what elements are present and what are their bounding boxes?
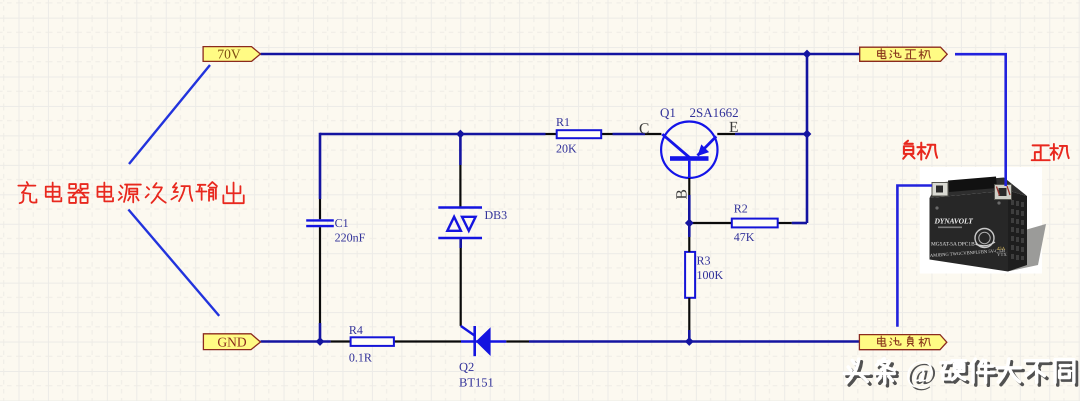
capacitor C1 <box>306 220 334 226</box>
wire bottom rail GND to C1 junction <box>261 340 331 343</box>
pin DB3 bottom to Q2 gate <box>460 248 462 326</box>
battery front face <box>930 191 1009 272</box>
svg-text:220nF: 220nF <box>335 231 366 245</box>
wire battery positive lead <box>955 54 1006 186</box>
wire emitter to right vertical <box>735 133 807 136</box>
port GND <box>203 334 260 350</box>
port 70V <box>203 47 260 62</box>
svg-text:C: C <box>639 121 649 138</box>
wire R2 right link <box>792 222 807 225</box>
svg-text:70V: 70V <box>217 47 241 62</box>
port battery positive (Chinese) <box>860 47 948 61</box>
pin R3 top <box>688 223 691 237</box>
battery terminal positive <box>995 185 1012 200</box>
port text battery negative <box>878 336 931 347</box>
svg-text:Q1: Q1 <box>660 105 676 120</box>
pin R1 left <box>546 133 557 135</box>
svg-text:R4: R4 <box>349 323 363 337</box>
battery emblem <box>975 229 994 248</box>
wire R3 to bottom junction <box>688 330 691 342</box>
port battery negative (Chinese) <box>859 335 946 350</box>
battery right side (vents) <box>1008 191 1027 272</box>
svg-text:MG5AT-5A DPC1B: MG5AT-5A DPC1B <box>931 242 975 248</box>
svg-text:E: E <box>729 119 738 136</box>
junction C1 / bottom rail <box>316 337 325 346</box>
junction E wire / right vertical <box>803 130 812 139</box>
svg-text:DYNAVOLT: DYNAVOLT <box>934 217 974 226</box>
svg-text:0.1R: 0.1R <box>349 351 372 365</box>
junction top rail / right vertical <box>803 50 812 59</box>
pin C1 bottom <box>319 227 321 323</box>
battery top face <box>930 178 1028 199</box>
wire R1 to Q1 collector <box>613 133 646 136</box>
wire top rail 70V to battery-positive port <box>261 53 860 56</box>
pin Q1 emitter <box>717 133 735 135</box>
battery shadow <box>1010 224 1046 271</box>
wire C1 to bottom rail <box>319 323 322 342</box>
svg-text:@: @ <box>905 354 934 389</box>
wire through Q2 <box>461 340 506 342</box>
pin R4 left <box>331 340 351 342</box>
wire DB3 bottom stub <box>459 238 462 248</box>
battery small screws <box>935 206 938 209</box>
thyristor Q2 BT151 <box>475 326 491 356</box>
junction B / R2 <box>685 219 694 228</box>
svg-text:R2: R2 <box>734 202 748 216</box>
svg-text:GND: GND <box>217 335 246 350</box>
svg-text:BT151: BT151 <box>459 376 494 390</box>
pointer line to GND <box>128 210 219 316</box>
junction C-branch / DB3 <box>456 130 465 139</box>
resistor R3 <box>685 252 695 298</box>
pin R4 right <box>394 340 461 342</box>
svg-text:YTX: YTX <box>997 252 1007 258</box>
svg-text:2SA1662: 2SA1662 <box>690 105 739 120</box>
svg-text:R1: R1 <box>556 115 570 129</box>
resistor R4 <box>351 337 394 346</box>
pin Q1 collector <box>645 133 661 135</box>
svg-text:100K: 100K <box>697 268 724 282</box>
diac DB3 <box>438 208 482 239</box>
pin R3 bottom <box>688 298 690 330</box>
wire Q2 gate diagonal <box>461 326 475 336</box>
battery photo <box>920 167 1046 274</box>
battery handle bar <box>948 177 997 193</box>
battery terminal negative <box>932 183 948 197</box>
pin R1 right <box>601 133 612 135</box>
svg-text:20K: 20K <box>556 142 577 156</box>
wire C-branch horizontal <box>320 133 546 136</box>
svg-text:DB3: DB3 <box>485 208 508 222</box>
svg-text:R3: R3 <box>697 254 711 268</box>
wire bottom rail to battery-negative port <box>529 340 859 343</box>
resistor R1 <box>557 130 602 138</box>
svg-text:47K: 47K <box>734 230 755 244</box>
pin C1 top <box>319 199 321 219</box>
svg-text:C1: C1 <box>335 216 349 230</box>
port text battery positive <box>878 49 931 60</box>
wire right vertical from top rail down to R2 <box>806 54 809 223</box>
wire DB3 branch upper <box>459 134 462 165</box>
pin DB3 top <box>459 165 461 208</box>
pin R2 right <box>778 222 792 224</box>
red label: charger power secondary output <box>18 182 243 203</box>
wire C1 branch upper <box>319 133 322 199</box>
junction R3 / bottom rail <box>685 337 694 346</box>
svg-text:Q2: Q2 <box>459 360 474 374</box>
wire battery negative lead <box>897 186 932 327</box>
pin Q2 anode <box>506 340 529 342</box>
transistor Q1 2SA1662 <box>661 122 717 224</box>
pin Q1 base <box>688 178 690 195</box>
red label positive pole <box>1032 144 1069 160</box>
resistor R2 <box>732 219 778 228</box>
pin R2 left <box>689 222 732 224</box>
svg-text:B: B <box>674 189 691 199</box>
pointer line to 70V <box>129 65 210 164</box>
red label negative pole <box>903 141 937 160</box>
svg-text:45A: 45A <box>997 246 1006 252</box>
watermark toutiao <box>844 354 1076 392</box>
